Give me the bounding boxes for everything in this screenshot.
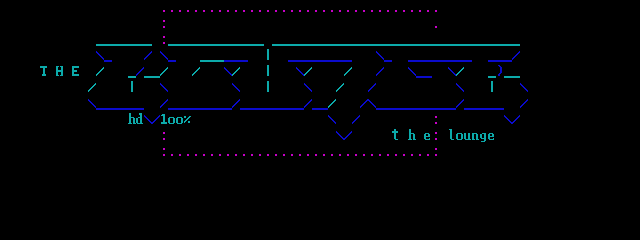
label THE	[40, 66, 79, 76]
border top dotted edge	[163, 10, 437, 12]
sig hd 100%	[128, 113, 191, 124]
label the lounge	[392, 129, 494, 142]
logo row 6 baseline	[88, 99, 528, 110]
logo descender V right	[504, 115, 520, 124]
logo top overline	[96, 44, 520, 46]
border right dot column	[435, 26, 437, 156]
border left colon column	[163, 20, 165, 156]
border bottom dotted edge	[171, 154, 429, 156]
logo row 5	[88, 81, 528, 92]
logo row 3	[96, 49, 520, 62]
logo row 4	[96, 65, 520, 78]
logo descender V left	[328, 115, 360, 140]
